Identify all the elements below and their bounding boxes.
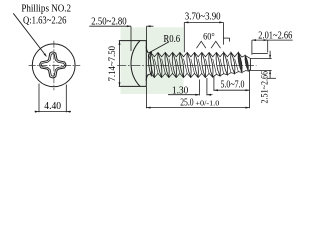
head bottom edge with extension [119, 85, 147, 87]
centerline vertical front view [53, 41, 55, 90]
svg-text:3.70~3.90: 3.70~3.90 [185, 11, 221, 23]
leader arrowhead [44, 53, 47, 57]
thread silhouette top [148, 52, 250, 58]
thread root flank lines [154, 59, 238, 75]
thread silhouette bottom [148, 70, 250, 77]
dimension 4.40 extension lines [35, 84, 71, 113]
thread crest lenses [148, 52, 248, 77]
svg-text:2.50~2.80: 2.50~2.80 [91, 15, 126, 27]
svg-text:5.0~7.0: 5.0~7.0 [221, 79, 245, 90]
tip end face [249, 59, 251, 71]
svg-text:7.14~7.50: 7.14~7.50 [107, 46, 118, 82]
svg-text:25.0: 25.0 [180, 98, 193, 109]
leader R0.6 [149, 42, 169, 53]
svg-text:Phillips NO.2: Phillips NO.2 [21, 3, 71, 15]
screw centerline side view [117, 64, 256, 66]
tick at tip crest [252, 52, 268, 54]
centerline horizontal front view [29, 65, 81, 67]
svg-text:4.40: 4.40 [44, 101, 61, 112]
head crown arc [131, 41, 140, 87]
pan head side view [119, 41, 149, 87]
svg-text:Q:1.63~2.26: Q:1.63~2.26 [23, 14, 67, 26]
phillips recess inner outline [41, 54, 64, 76]
phillips recess outer outline [40, 52, 66, 78]
svg-text:+0/-1.0: +0/-1.0 [195, 98, 219, 107]
fillet bottom into thread [146, 74, 149, 80]
leader to phillips recess [13, 13, 46, 56]
head rear face [145, 41, 147, 87]
fillet top into thread [146, 47, 149, 54]
svg-text:60°: 60° [203, 32, 215, 42]
head top edge with extension [119, 40, 147, 42]
dimension 4.40 arrows [35, 111, 39, 113]
svg-text:2.51~2.66: 2.51~2.66 [260, 71, 271, 104]
selection highlight region [121, 27, 184, 94]
screw head front view circle [32, 44, 75, 87]
